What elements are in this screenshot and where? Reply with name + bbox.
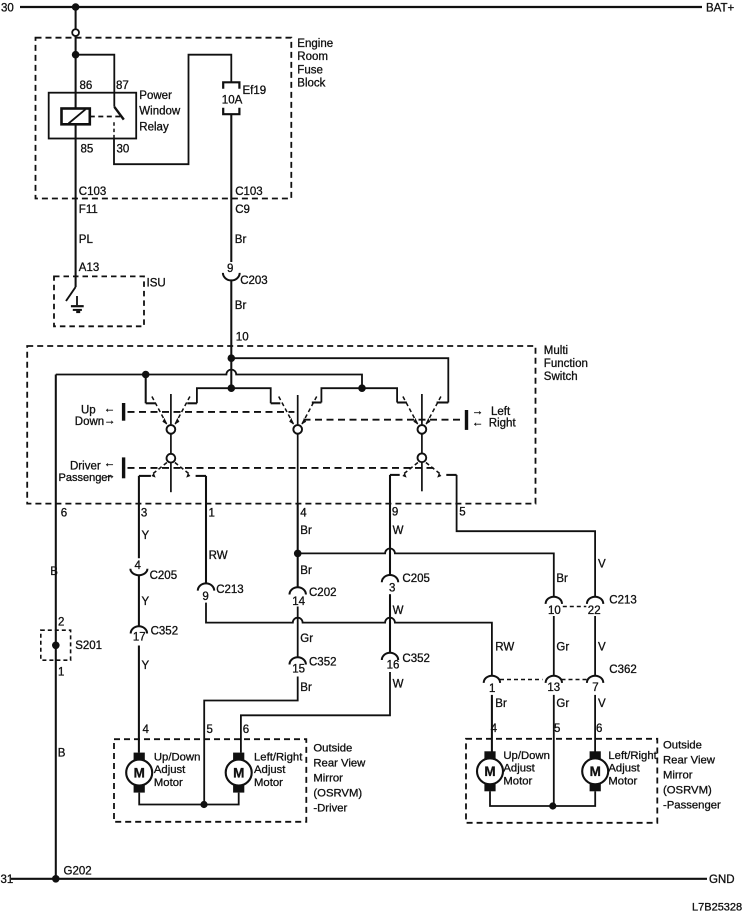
svg-text:C352: C352 — [402, 653, 430, 665]
svg-text:←: ← — [472, 417, 484, 429]
svg-text:9: 9 — [392, 507, 398, 519]
svg-text:10A: 10A — [222, 95, 243, 107]
svg-text:22: 22 — [588, 605, 601, 617]
svg-text:RW: RW — [495, 641, 514, 653]
svg-text:Br: Br — [300, 525, 312, 537]
svg-text:Driver: Driver — [70, 461, 101, 473]
svg-text:Ef19: Ef19 — [243, 85, 267, 97]
svg-text:Br: Br — [235, 234, 247, 246]
svg-text:V: V — [598, 559, 606, 571]
svg-text:9: 9 — [227, 263, 233, 275]
svg-text:C202: C202 — [309, 587, 337, 599]
svg-text:←: ← — [104, 458, 116, 470]
svg-text:15: 15 — [292, 663, 305, 675]
svg-text:86: 86 — [80, 80, 93, 92]
svg-text:30: 30 — [117, 143, 130, 155]
svg-text:S201: S201 — [75, 640, 102, 652]
svg-text:3: 3 — [389, 582, 395, 594]
svg-text:4: 4 — [143, 724, 150, 736]
svg-text:M: M — [484, 764, 495, 779]
svg-text:Br: Br — [556, 573, 568, 585]
svg-text:M: M — [590, 764, 601, 779]
svg-text:C9: C9 — [235, 204, 250, 216]
svg-text:C103: C103 — [79, 186, 107, 198]
svg-text:ISU: ISU — [147, 277, 166, 289]
svg-text:M: M — [233, 765, 244, 780]
svg-text:C213: C213 — [609, 595, 637, 607]
svg-text:1: 1 — [489, 683, 495, 695]
svg-text:5: 5 — [554, 723, 560, 735]
svg-text:85: 85 — [81, 143, 94, 155]
svg-text:C205: C205 — [402, 573, 430, 585]
svg-text:V: V — [598, 698, 606, 710]
svg-text:17: 17 — [133, 631, 146, 643]
svg-text:Gr: Gr — [556, 698, 569, 710]
svg-text:Br: Br — [235, 300, 247, 312]
svg-text:←: ← — [104, 403, 116, 415]
svg-text:Y: Y — [142, 530, 150, 542]
svg-text:9: 9 — [202, 591, 208, 603]
svg-text:V: V — [598, 641, 606, 653]
svg-text:→: → — [472, 405, 484, 417]
svg-text:C362: C362 — [609, 664, 637, 676]
svg-text:Gr: Gr — [556, 641, 569, 653]
svg-text:6: 6 — [61, 508, 67, 520]
svg-text:5: 5 — [207, 724, 213, 736]
svg-text:Left: Left — [491, 406, 511, 418]
svg-text:Gr: Gr — [300, 633, 313, 645]
svg-text:C103: C103 — [235, 186, 263, 198]
svg-text:C352: C352 — [309, 656, 337, 668]
svg-text:Br: Br — [300, 682, 312, 694]
svg-text:C352: C352 — [151, 626, 179, 638]
svg-text:87: 87 — [116, 80, 129, 92]
svg-text:1: 1 — [58, 666, 64, 678]
svg-text:4: 4 — [491, 723, 498, 735]
svg-text:RW: RW — [209, 550, 228, 562]
svg-text:Up: Up — [81, 405, 96, 417]
svg-text:30: 30 — [1, 3, 14, 15]
svg-text:W: W — [393, 525, 404, 537]
svg-text:L7B25328: L7B25328 — [692, 902, 742, 914]
svg-text:GND: GND — [709, 874, 735, 886]
svg-text:B: B — [58, 747, 66, 759]
svg-text:1: 1 — [209, 508, 215, 520]
svg-text:6: 6 — [596, 723, 602, 735]
svg-text:10: 10 — [548, 605, 561, 617]
svg-text:C205: C205 — [150, 570, 178, 582]
svg-text:13: 13 — [547, 682, 560, 694]
svg-text:BAT+: BAT+ — [706, 3, 735, 15]
svg-text:Br: Br — [495, 698, 507, 710]
svg-text:G202: G202 — [64, 865, 92, 877]
svg-text:Down: Down — [75, 416, 104, 428]
svg-text:5: 5 — [459, 507, 465, 519]
svg-text:16: 16 — [387, 660, 400, 672]
svg-text:31: 31 — [1, 874, 14, 886]
svg-text:→: → — [104, 415, 116, 427]
svg-text:Y: Y — [142, 660, 150, 672]
svg-text:7: 7 — [592, 682, 598, 694]
svg-text:14: 14 — [292, 596, 305, 608]
svg-text:F11: F11 — [79, 204, 98, 216]
svg-text:Y: Y — [142, 596, 150, 608]
svg-text:Br: Br — [300, 565, 312, 577]
svg-text:2: 2 — [58, 616, 64, 628]
svg-text:C213: C213 — [216, 584, 244, 596]
svg-text:PL: PL — [79, 234, 94, 246]
svg-text:B: B — [50, 566, 58, 578]
svg-text:W: W — [393, 678, 404, 690]
svg-text:W: W — [393, 605, 404, 617]
svg-text:4: 4 — [300, 508, 307, 520]
svg-text:A13: A13 — [79, 262, 99, 274]
svg-text:Right: Right — [489, 418, 517, 430]
svg-text:10: 10 — [236, 332, 249, 344]
svg-text:→: → — [104, 470, 116, 482]
svg-text:6: 6 — [243, 724, 249, 736]
svg-text:M: M — [134, 765, 145, 780]
svg-text:4: 4 — [135, 560, 142, 572]
svg-text:C203: C203 — [240, 275, 268, 287]
svg-text:3: 3 — [141, 508, 147, 520]
